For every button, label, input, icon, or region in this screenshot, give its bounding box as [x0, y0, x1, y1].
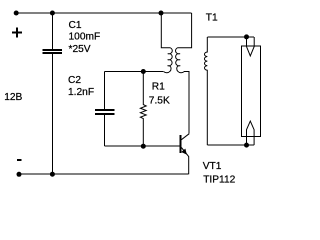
lamp top electrode — [247, 37, 255, 56]
capacitor C1 — [42, 13, 62, 174]
plus terminal symbol — [12, 27, 22, 37]
lamp tube EL1 — [241, 46, 260, 137]
svg-text:VT1: VT1 — [203, 161, 222, 172]
transistor VT1 collector — [181, 134, 189, 140]
resistor R1 — [140, 72, 146, 147]
transformer T1 primary winding A — [161, 13, 172, 73]
junction node lamp top — [244, 34, 249, 39]
svg-text:C1: C1 — [69, 20, 82, 31]
transistor VT1 emitter arrow — [181, 149, 187, 155]
wire base horizontal — [105, 145, 180, 147]
junction node top of T1 — [159, 11, 164, 16]
wire secondary bottom to lamp — [207, 144, 254, 146]
wire winding B to collector — [184, 72, 189, 134]
junction node X above R1 — [141, 69, 146, 74]
svg-text:C2: C2 — [68, 75, 81, 86]
svg-text:T1: T1 — [206, 12, 218, 23]
terminal dot battery plus — [14, 11, 19, 16]
svg-text:7.5K: 7.5K — [149, 96, 170, 107]
svg-text:R1: R1 — [152, 82, 165, 93]
terminal dot battery minus — [17, 172, 22, 177]
wire bottom rail — [19, 173, 189, 175]
wire secondary top to lamp — [207, 36, 254, 38]
junction node top of C1 — [50, 11, 55, 16]
junction node base — [141, 144, 146, 149]
transistor VT1 emitter — [181, 148, 188, 175]
lamp bottom electrode — [247, 121, 255, 145]
svg-text:*25V: *25V — [69, 44, 91, 55]
transformer T1 primary winding B — [176, 13, 192, 73]
transformer T1 secondary winding — [204, 37, 207, 145]
wire top rail — [16, 12, 192, 14]
svg-text:TIP112: TIP112 — [203, 175, 235, 186]
svg-text:12В: 12В — [4, 92, 22, 103]
junction node lamp bottom — [244, 143, 249, 148]
minus terminal symbol — [17, 159, 22, 161]
wire node X horizontal — [105, 71, 164, 73]
svg-text:100mF: 100mF — [69, 32, 101, 43]
svg-text:1.2nF: 1.2nF — [68, 87, 94, 98]
junction node bottom of C1 — [50, 172, 55, 177]
capacitor C2 — [95, 72, 115, 147]
transistor VT1 base bar — [180, 135, 182, 153]
